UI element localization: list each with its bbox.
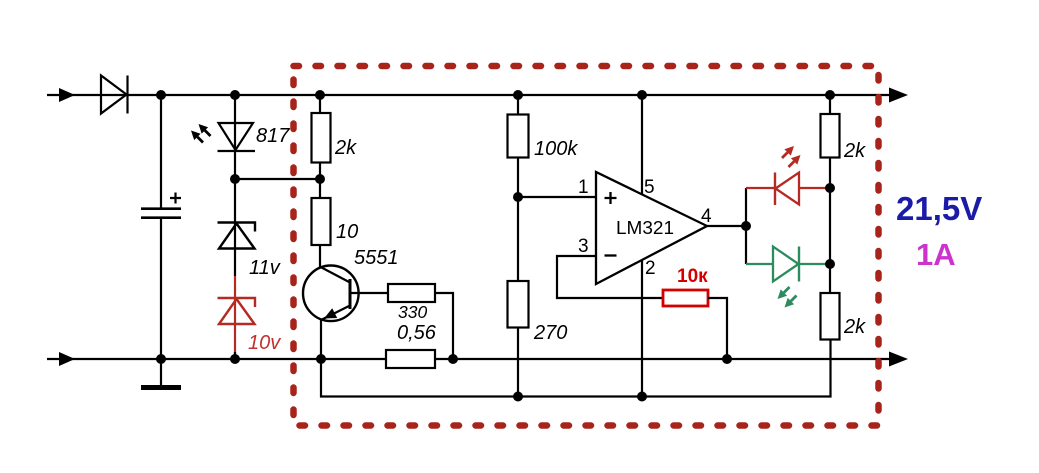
wire 10k to rail [708, 298, 727, 359]
svg-text:817: 817 [256, 125, 290, 147]
svg-text:5551: 5551 [354, 247, 399, 269]
svg-text:10v: 10v [248, 332, 281, 354]
wire sense lower line [321, 339, 831, 397]
transistor Q1 5551 [303, 266, 359, 322]
label 2k left [334, 137, 357, 159]
label 21,5V [896, 190, 982, 227]
resistor R 2k bottom right [821, 293, 840, 340]
opto 817 light arrows [191, 124, 211, 143]
node dots top rail [156, 90, 835, 100]
resistor R 2k left [312, 113, 331, 163]
wire 330 to rail [435, 293, 453, 359]
pin 5 [644, 177, 655, 198]
svg-text:100k: 100k [534, 138, 578, 160]
label 330 [398, 302, 427, 322]
wire pin1 [518, 196, 596, 198]
wire bottom rail [47, 358, 890, 360]
resistor R 100k [508, 115, 529, 158]
wire 2k-10 branch [319, 95, 321, 267]
wire pin5 [641, 95, 643, 194]
wire right branch [829, 95, 831, 339]
label 10 [336, 221, 358, 243]
label 100k [534, 138, 578, 160]
wire opto branch red part [234, 276, 236, 354]
wire opto branch lower [234, 352, 236, 359]
label 817 [256, 125, 290, 147]
node dots bottom rail [156, 354, 732, 364]
ground [141, 359, 181, 388]
wire emitter to rail [320, 320, 322, 360]
svg-text:2k: 2k [843, 140, 866, 162]
wire capacitor branch [160, 95, 162, 359]
svg-text:2: 2 [645, 258, 656, 279]
resistor R 0,56 on rail [386, 350, 435, 368]
LED red arrows [782, 146, 801, 167]
wire node A to 2k junction [235, 178, 320, 180]
wire pin3 loop [557, 256, 663, 298]
output arrow top right [889, 88, 908, 103]
resistor R 2k top right [821, 114, 840, 158]
label 270 [533, 322, 567, 344]
svg-text:2k: 2k [334, 137, 357, 159]
svg-text:10: 10 [336, 221, 358, 243]
pin 4 [701, 206, 712, 227]
svg-text:2k: 2k [843, 316, 866, 338]
LED green D3 [746, 247, 830, 282]
label 1A [916, 237, 956, 272]
output arrow bottom right [889, 352, 908, 367]
input arrow bottom left [59, 352, 75, 366]
svg-text:4: 4 [701, 206, 712, 227]
svg-text:330: 330 [398, 302, 427, 322]
LED green arrows [778, 287, 797, 308]
svg-text:1: 1 [578, 177, 589, 198]
resistor R 10k red [663, 290, 708, 306]
label 10k [677, 266, 708, 287]
wire pin2 [641, 260, 643, 396]
diode D1 input [101, 76, 128, 114]
label 11v [249, 257, 281, 279]
wire LED branch vertical [745, 188, 747, 264]
dashed boundary box [294, 66, 879, 426]
node dots middle [230, 174, 835, 269]
svg-text:1A: 1A [916, 237, 956, 272]
pin 2 [645, 258, 656, 279]
svg-text:LM321: LM321 [616, 217, 674, 238]
label 0,56 [397, 322, 437, 344]
node dots lower line [513, 392, 647, 402]
label 5551 [354, 247, 399, 269]
svg-text:11v: 11v [249, 257, 281, 279]
wire 100k-270 branch [517, 95, 519, 396]
label 2k bottom right [843, 316, 866, 338]
op-amp U1 LM321 [596, 172, 707, 284]
svg-text:10к: 10к [677, 266, 708, 287]
wire opto branch [234, 95, 236, 276]
LED red D2 [746, 173, 830, 206]
svg-text:5: 5 [644, 177, 655, 198]
capacitor C1 [141, 193, 181, 218]
wire top rail [47, 94, 890, 96]
pin 3 [578, 236, 589, 257]
zener diode 10v red [218, 298, 256, 324]
svg-text:21,5V: 21,5V [896, 190, 982, 227]
opto LED 817 [218, 123, 256, 151]
wire output pin4 [707, 225, 746, 227]
resistor R 330 [388, 284, 435, 302]
pin 1 [578, 177, 589, 198]
label 10v [248, 332, 281, 354]
svg-text:3: 3 [578, 236, 589, 257]
label 2k top right [843, 140, 866, 162]
wire base to 330 [350, 292, 388, 294]
resistor R 10 [312, 198, 331, 245]
svg-text:270: 270 [533, 322, 567, 344]
svg-text:0,56: 0,56 [397, 322, 437, 344]
zener diode 11v [218, 223, 256, 249]
resistor R 270 [508, 281, 529, 328]
input arrow top left [59, 88, 75, 102]
